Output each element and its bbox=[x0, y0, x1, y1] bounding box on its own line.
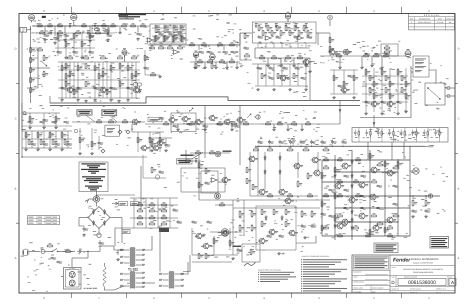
resistor R76 bbox=[267, 25, 272, 32]
zone numbers top bbox=[43, 10, 430, 13]
resistor R6 bbox=[334, 166, 339, 174]
resistor R235 bbox=[198, 253, 203, 259]
ground bbox=[226, 66, 229, 69]
capacitor C70 bbox=[375, 53, 381, 56]
resistor R180 bbox=[52, 139, 57, 144]
flag arrow 2 bbox=[247, 114, 251, 118]
resistor R33 bbox=[38, 23, 43, 27]
pin 2 bbox=[120, 256, 129, 258]
zone letters left bbox=[15, 48, 17, 261]
svg-text:AC MAINS PWR.: AC MAINS PWR. bbox=[84, 287, 99, 290]
transistor Q29 bbox=[168, 117, 178, 123]
resistor R66 bbox=[180, 35, 185, 41]
pin 4 bbox=[175, 273, 184, 275]
ground bbox=[267, 64, 270, 67]
wire bbox=[305, 58, 307, 64]
wire bbox=[309, 58, 311, 100]
wire speaker out bbox=[410, 195, 427, 197]
wire bbox=[30, 95, 32, 103]
wire vertical bbox=[339, 100, 341, 124]
resistor R105 bbox=[277, 121, 283, 125]
resistor R179 bbox=[40, 139, 45, 144]
wire drop bbox=[301, 124, 303, 128]
capacitor C61 bbox=[173, 25, 179, 28]
resistor R45 bbox=[43, 71, 48, 78]
resistor R167 bbox=[271, 30, 276, 36]
ground bbox=[309, 70, 312, 73]
resistor R41 bbox=[30, 67, 35, 73]
resistor R29 bbox=[161, 202, 168, 206]
capacitor C103 bbox=[64, 121, 70, 124]
svg-text:D: D bbox=[15, 48, 17, 51]
ground bbox=[177, 128, 180, 131]
resistor R35 bbox=[58, 23, 63, 27]
ground bbox=[118, 100, 121, 103]
diode D43 bridge bbox=[103, 220, 105, 225]
proprietary note box bbox=[0, 0, 1, 1]
svg-text:MODEL NAME: MODEL NAME bbox=[354, 287, 363, 289]
capacitor C82 bbox=[103, 28, 109, 31]
ground bbox=[305, 88, 308, 91]
svg-text:R E V I S I O N S: R E V I S I O N S bbox=[424, 14, 440, 17]
capacitor C74 bbox=[159, 117, 165, 120]
diode D11 bbox=[279, 155, 281, 160]
resistor R26 bbox=[311, 210, 316, 217]
capacitor C57 bbox=[169, 33, 175, 36]
arrow mark bbox=[373, 122, 375, 125]
resistor R39 bbox=[30, 47, 35, 53]
resistor R80 bbox=[303, 25, 308, 32]
ground bbox=[405, 110, 408, 113]
preamp label text bbox=[118, 13, 131, 16]
wire bias top bbox=[130, 197, 178, 199]
capacitor C94 bbox=[157, 31, 163, 34]
wire drop bbox=[204, 124, 206, 128]
ground bbox=[425, 215, 428, 218]
bias label box 2 bbox=[131, 202, 139, 206]
wire bias bottom bbox=[192, 261, 232, 263]
reverb recovery cluster bbox=[255, 43, 310, 48]
resistor R163 bbox=[158, 45, 164, 48]
footswitch jack J3 bbox=[447, 94, 450, 97]
capacitor C81 bbox=[57, 261, 63, 264]
resistor R79 bbox=[294, 25, 299, 32]
resistor R149 bbox=[287, 193, 293, 197]
resistor R145 bbox=[384, 227, 389, 233]
zone letters right bbox=[458, 48, 460, 261]
component legend box bbox=[79, 162, 108, 192]
Fender logo and company name bbox=[393, 258, 439, 265]
svg-text:D: D bbox=[458, 48, 460, 51]
phase splitter cluster wires bbox=[362, 68, 408, 112]
resistor R150 bbox=[307, 193, 313, 197]
resistor R110 bbox=[49, 132, 54, 138]
wire bbox=[143, 282, 155, 284]
resistor R143 bbox=[397, 161, 402, 167]
resistor R118 bbox=[149, 137, 154, 143]
pa junction dots bbox=[334, 159, 410, 236]
capacitor C22 bbox=[94, 23, 97, 27]
capacitor C64 bbox=[265, 23, 268, 27]
resistor R57 bbox=[102, 71, 107, 77]
wire bbox=[280, 58, 282, 64]
transistor Q34 bbox=[236, 117, 246, 123]
capacitor C101 bbox=[40, 121, 46, 124]
svg-text:REV: REV bbox=[450, 277, 453, 279]
capacitor C62 bbox=[180, 25, 186, 28]
transistor Q43 bbox=[313, 170, 324, 176]
tone box internals bbox=[152, 28, 184, 42]
svg-text:MUSICAL INSTRUMENTS: MUSICAL INSTRUMENTS bbox=[411, 258, 439, 261]
pin 11 bbox=[136, 272, 145, 274]
resistor R46 bbox=[57, 33, 62, 39]
wire outlet feed bbox=[71, 258, 73, 268]
resistor R239 bbox=[353, 75, 358, 81]
pin 5 bbox=[136, 254, 145, 256]
resistor R214 bbox=[373, 93, 378, 98]
ground bbox=[25, 148, 28, 151]
ground bbox=[231, 128, 234, 131]
resistor R162 bbox=[149, 45, 155, 48]
resistor R69 bbox=[217, 42, 223, 45]
capacitor C78 bbox=[217, 123, 223, 126]
ground bbox=[37, 148, 40, 151]
capacitor C118 bbox=[192, 221, 198, 224]
svg-text:A: A bbox=[451, 280, 454, 285]
resistor R124 bbox=[131, 23, 136, 27]
ground bbox=[273, 128, 276, 131]
wire drop bbox=[381, 56, 383, 66]
resistor R75 bbox=[258, 25, 263, 32]
arrow mark 2 bbox=[339, 109, 341, 112]
pin 8 bbox=[120, 273, 129, 275]
ground bbox=[361, 66, 364, 69]
potentiometer VR3 treble bbox=[122, 48, 127, 57]
pin 3 bbox=[159, 285, 168, 287]
wire bbox=[317, 33, 319, 45]
ground bbox=[94, 99, 97, 102]
fet circle 3 bbox=[215, 151, 221, 157]
resistor R54 bbox=[110, 65, 115, 71]
capacitor C104 bbox=[344, 175, 350, 178]
wire feedback bus bbox=[360, 66, 411, 118]
wire drop bbox=[177, 124, 179, 128]
wire bridge top bbox=[96, 202, 98, 206]
pin 12 bbox=[136, 277, 145, 279]
capacitor C51 bbox=[98, 142, 104, 145]
wire mains N bbox=[114, 286, 124, 290]
jack J4 fx bbox=[254, 115, 260, 119]
svg-text:C: C bbox=[15, 117, 17, 120]
wire drop bbox=[137, 26, 139, 32]
transistor Q20 bbox=[288, 230, 298, 236]
resistor R70 bbox=[229, 42, 235, 45]
resistor R207 bbox=[75, 30, 81, 33]
wire T2 out bbox=[183, 255, 190, 272]
diode D12 bbox=[279, 169, 281, 174]
ground bbox=[333, 96, 336, 99]
fx fet box bbox=[171, 113, 196, 132]
capacitor C105 bbox=[344, 189, 350, 192]
wire into cap bank bbox=[373, 115, 375, 128]
wire preamp row extension bbox=[115, 25, 150, 27]
thermal block box bbox=[242, 244, 260, 262]
resistor R61 bbox=[173, 27, 178, 33]
second stage cluster wires bbox=[58, 62, 140, 98]
ground bbox=[204, 66, 207, 69]
resistor R8 bbox=[334, 214, 339, 222]
svg-text:Corona, CA 92718 USA: Corona, CA 92718 USA bbox=[413, 261, 434, 264]
wire drop bbox=[119, 26, 121, 31]
diode D40 bridge bbox=[92, 209, 94, 214]
resistor R134 bbox=[337, 193, 343, 197]
capacitor C98 bbox=[87, 30, 90, 34]
resistor R192 bbox=[83, 55, 89, 58]
resistor R126 bbox=[65, 63, 70, 69]
resistor R56 bbox=[69, 71, 74, 77]
capacitor C19 bbox=[173, 208, 179, 212]
resistor R34 bbox=[48, 23, 53, 27]
resistor R177 bbox=[401, 87, 406, 93]
capacitor C72 bbox=[335, 53, 341, 56]
capacitor C58 bbox=[178, 33, 184, 36]
resistor R218 bbox=[353, 179, 358, 183]
wire T1 to bias bbox=[115, 228, 130, 246]
resistor R132 bbox=[337, 157, 343, 161]
resistor R82 bbox=[271, 55, 277, 58]
transistor Q15 bbox=[278, 189, 288, 195]
small fet circle 2 bbox=[155, 175, 159, 179]
fuse F2 circle bbox=[89, 196, 100, 202]
resistor R189 bbox=[244, 53, 250, 56]
resistor R208 bbox=[95, 30, 101, 33]
capacitor C53 bbox=[137, 33, 143, 36]
wire bbox=[180, 262, 188, 274]
capacitor C112 bbox=[377, 207, 383, 210]
resistor R32 bbox=[161, 215, 168, 219]
capacitor C43 bbox=[295, 66, 301, 69]
resistor R113 bbox=[108, 119, 114, 123]
resistor R215 bbox=[389, 93, 394, 98]
ground bbox=[151, 149, 154, 152]
resistor R166 bbox=[262, 30, 267, 36]
resistor R206 bbox=[57, 30, 63, 33]
ground bbox=[159, 75, 162, 78]
resistor R144 bbox=[369, 229, 374, 235]
capacitor C83 bbox=[43, 119, 49, 122]
resistor R210 bbox=[98, 73, 103, 78]
capacitor C11 bbox=[331, 140, 337, 145]
resistor R48 bbox=[73, 33, 78, 39]
wire vertical drop B bbox=[239, 106, 241, 166]
power mute cluster bbox=[132, 132, 164, 152]
wire drop bbox=[287, 124, 289, 128]
wire left rail bbox=[21, 32, 23, 157]
resistor R16 bbox=[322, 147, 329, 151]
fuse F1 bbox=[41, 248, 46, 254]
resistor R164 bbox=[167, 45, 173, 48]
resistor R197 bbox=[211, 63, 216, 69]
capacitor C110 bbox=[344, 207, 350, 210]
resistor R51 bbox=[61, 65, 66, 71]
svg-text:A: A bbox=[458, 257, 460, 260]
wire bbox=[105, 288, 115, 291]
svg-text:MODEL NUMBER: MODEL NUMBER bbox=[372, 287, 383, 289]
op-amp U2B bbox=[296, 36, 304, 40]
transistor Q46 bbox=[369, 194, 380, 200]
fuse arrow mark bbox=[85, 200, 89, 203]
potentiometer VR1 volume bbox=[29, 13, 35, 22]
switch matrix wires bbox=[22, 131, 72, 148]
header label box 1 bbox=[77, 110, 92, 116]
resistor R146 bbox=[253, 147, 259, 151]
diagonal wire to fx label bbox=[192, 152, 203, 158]
resistor R185 bbox=[55, 116, 60, 122]
fet label dark bbox=[223, 151, 232, 152]
capacitor C120 bbox=[338, 85, 344, 88]
pin 1 bbox=[159, 273, 168, 275]
resistor R72 bbox=[207, 59, 213, 62]
potentiometer VR5 bass bbox=[210, 53, 216, 62]
capacitor C50 bbox=[67, 143, 73, 146]
resistor R216 bbox=[405, 93, 410, 98]
ground bbox=[236, 66, 239, 69]
transistor Q19 bbox=[268, 229, 278, 235]
pin 1 bbox=[120, 249, 129, 251]
wire bbox=[240, 32, 252, 34]
svg-text:REV. NO.: REV. NO. bbox=[392, 292, 398, 294]
resistor R101 bbox=[217, 121, 223, 125]
second stage extra wires bbox=[58, 70, 140, 88]
capacitor C100 bbox=[28, 121, 34, 124]
svg-text:Fender: Fender bbox=[393, 258, 411, 264]
capacitor C89 bbox=[223, 51, 229, 54]
resistor R171 bbox=[307, 30, 312, 36]
wire supply drop bbox=[391, 142, 393, 160]
wire bbox=[198, 155, 200, 200]
resistor R181 bbox=[64, 139, 69, 144]
capacitor C9 bbox=[310, 140, 316, 145]
capacitor C106 bbox=[361, 175, 367, 178]
svg-text:* UNLESS OTHERWISE SPECIFIED:: * UNLESS OTHERWISE SPECIFIED: bbox=[301, 255, 330, 258]
wire bias out bbox=[210, 231, 242, 233]
resistor R195 bbox=[131, 55, 137, 58]
resistor R42 bbox=[30, 77, 35, 83]
capacitor C6 bbox=[279, 140, 285, 145]
ground bbox=[61, 148, 64, 151]
wire input column bbox=[30, 28, 32, 95]
wire bbox=[211, 60, 213, 62]
resistor R67 bbox=[189, 42, 195, 45]
capacitor C111 bbox=[361, 207, 367, 210]
resistor R233 bbox=[252, 184, 257, 190]
arrow tick bbox=[112, 202, 118, 204]
resistor R169 bbox=[289, 30, 294, 36]
ground bbox=[353, 96, 356, 99]
transistor Q37 bbox=[152, 145, 162, 151]
resistor R36 bbox=[82, 23, 87, 27]
wire to footswitch jack 2 bbox=[445, 95, 455, 97]
resistor R19 bbox=[213, 237, 218, 244]
resistor R128 bbox=[119, 63, 124, 69]
resistor R170 bbox=[298, 30, 303, 36]
svg-text:CAD 1 A: CAD 1 A bbox=[436, 292, 441, 294]
transformer T1 secondary bbox=[130, 272, 135, 289]
capacitor C52 bbox=[159, 170, 165, 173]
capacitor C28 bbox=[57, 51, 63, 54]
transistor Q42 bbox=[340, 87, 350, 93]
resistor R135 bbox=[355, 193, 361, 197]
mid right extra wires bbox=[362, 84, 408, 102]
resistor R154 bbox=[261, 221, 266, 227]
resistor R211 bbox=[131, 73, 136, 78]
wire drop bbox=[273, 124, 275, 128]
diagonal link 1 bbox=[86, 115, 95, 122]
signature squiggle bbox=[244, 262, 256, 266]
resistor R139 bbox=[323, 157, 329, 161]
preout stage box bbox=[201, 171, 218, 193]
resistor R49 bbox=[81, 41, 86, 47]
wire bbox=[296, 236, 316, 243]
power amp in label bbox=[181, 155, 194, 157]
resistor R86 bbox=[329, 46, 334, 53]
reverb driver box bbox=[253, 22, 317, 43]
ground bbox=[381, 66, 384, 69]
first stage cluster bbox=[55, 33, 95, 56]
ground bbox=[301, 128, 304, 131]
fuse rating table bbox=[28, 216, 60, 225]
resistor R28 bbox=[149, 202, 156, 206]
ground bbox=[304, 236, 307, 239]
wire bbox=[186, 44, 240, 46]
resistor R62 bbox=[180, 27, 185, 33]
resistor R112 bbox=[96, 119, 102, 123]
resistor R87 bbox=[336, 53, 342, 56]
resistor R85 bbox=[329, 37, 334, 44]
ground bbox=[138, 90, 141, 93]
resistor R227 bbox=[195, 150, 201, 154]
diode D15 bbox=[334, 173, 336, 178]
resistor R119 bbox=[159, 137, 164, 143]
wire drop bbox=[339, 56, 341, 66]
capacitor C49 bbox=[55, 143, 61, 146]
wire mute chain bbox=[72, 121, 145, 123]
wire bbox=[408, 57, 411, 58]
capacitor C60 bbox=[164, 25, 170, 28]
input jack J1 bbox=[20, 26, 31, 32]
capacitor C3 bbox=[83, 226, 89, 231]
danger notice box bbox=[430, 237, 449, 249]
wire bbox=[131, 124, 133, 132]
ground bbox=[371, 64, 374, 67]
diode D8 bbox=[351, 225, 353, 230]
fuse F3 circle bbox=[97, 233, 101, 237]
wire bbox=[240, 33, 252, 60]
resistor R231 bbox=[246, 167, 251, 173]
capacitor C25 bbox=[64, 34, 70, 37]
resistor R83 bbox=[285, 55, 291, 58]
ground bbox=[127, 99, 130, 102]
capacitor C16 bbox=[301, 224, 307, 228]
diagonal link 2 bbox=[110, 116, 117, 122]
low voltage regulator cluster bbox=[233, 200, 330, 255]
resistor R94 bbox=[373, 81, 378, 87]
wire bbox=[425, 196, 427, 199]
resistor R186 bbox=[144, 55, 149, 61]
wire presence run bbox=[22, 156, 147, 158]
ground bbox=[215, 66, 218, 69]
capacitor C79 bbox=[235, 125, 241, 128]
